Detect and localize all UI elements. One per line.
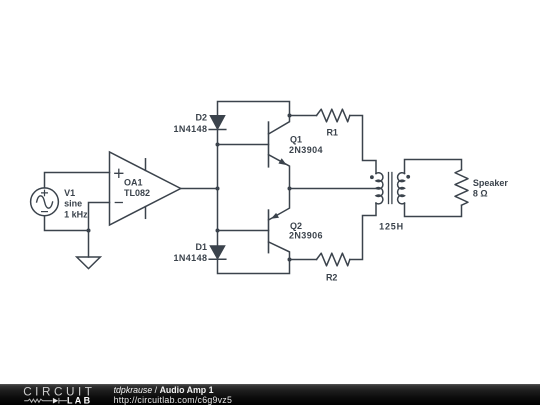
label V1 designator	[64, 188, 75, 198]
wire op-amp - input to ground node	[89, 203, 110, 231]
transformer secondary winding	[398, 173, 405, 204]
transformer primary phase dot	[370, 175, 374, 179]
diode D2	[209, 116, 226, 130]
label Q1 value 2N3904	[289, 145, 323, 155]
node at ground junction	[87, 229, 91, 233]
CircuitLab logo	[0, 384, 110, 405]
label Speaker value 8 ohm	[473, 188, 488, 198]
wire Q1 collector to R1	[290, 115, 317, 117]
svg-text:1 kHz: 1 kHz	[64, 209, 88, 219]
svg-text:OA1: OA1	[124, 177, 143, 187]
svg-text:Q1: Q1	[290, 134, 302, 144]
ground	[77, 231, 101, 269]
wire emitters junction to transformer center tap	[290, 188, 377, 190]
label OA1 designator	[124, 177, 143, 187]
label R2 designator	[326, 272, 338, 282]
transformer primary winding	[376, 173, 383, 204]
node Q2 collector	[288, 258, 292, 262]
transformer secondary phase dot	[406, 175, 410, 179]
transformer core	[389, 173, 392, 204]
wire Q1 base	[218, 144, 269, 146]
resistor R1	[317, 109, 350, 122]
footer url text	[114, 395, 233, 405]
transistor Q1	[269, 116, 290, 189]
wire R1 to transformer primary top	[350, 116, 376, 174]
label Speaker name	[473, 178, 509, 188]
svg-text:LAB: LAB	[67, 395, 92, 405]
op-amp OA1	[110, 152, 181, 225]
svg-text:V1: V1	[64, 188, 75, 198]
label D1 designator	[195, 242, 207, 252]
svg-text:R1: R1	[326, 127, 338, 137]
transistor Q2	[269, 189, 290, 260]
node Q1 collector	[288, 114, 292, 118]
wire Q2 collector to R2	[290, 259, 317, 261]
label Q2 value 2N3906	[289, 231, 323, 241]
wire bus middle segment	[217, 130, 219, 246]
node op-amp output on bus	[216, 187, 220, 191]
wire secondary top to speaker	[405, 160, 462, 174]
label Q1 designator	[290, 134, 302, 144]
wire R2 to transformer primary bottom	[350, 203, 376, 259]
svg-text:125H: 125H	[379, 222, 404, 232]
node D2 cathode / Q1 base	[216, 143, 220, 147]
svg-text:2N3906: 2N3906	[289, 231, 323, 241]
footer bar	[0, 384, 540, 405]
wire bus top corner to Q1 collector	[218, 102, 290, 116]
diode D1	[209, 246, 226, 259]
svg-text:1N4148: 1N4148	[173, 253, 207, 263]
wire op-amp output to diode bus	[181, 188, 218, 190]
svg-text:8 Ω: 8 Ω	[473, 188, 488, 198]
svg-text:D2: D2	[195, 113, 207, 123]
node D1 anode / Q2 base	[216, 229, 220, 233]
label D2 designator	[195, 113, 207, 123]
label V1 value sine 1 kHz	[64, 199, 88, 220]
svg-text:sine: sine	[64, 199, 82, 209]
footer title text	[114, 385, 214, 395]
label OA1 value TL082	[124, 188, 150, 198]
svg-text:TL082: TL082	[124, 188, 150, 198]
svg-text:D1: D1	[195, 242, 207, 252]
node emitters junction	[288, 187, 292, 191]
speaker load resistor	[455, 170, 468, 205]
label D2 value 1N4148	[173, 124, 207, 134]
label transformer value 125H	[379, 222, 404, 232]
svg-text:Speaker: Speaker	[473, 178, 509, 188]
resistor R2	[317, 253, 350, 266]
svg-text:Q2: Q2	[290, 221, 302, 231]
svg-text:2N3904: 2N3904	[289, 145, 323, 155]
wire V1 bottom to ground node	[45, 216, 89, 231]
label Q2 designator	[290, 221, 302, 231]
svg-text:1N4148: 1N4148	[173, 124, 207, 134]
wire Q2 base	[218, 230, 269, 232]
svg-text:R2: R2	[326, 272, 338, 282]
wire V1 top to op-amp + input	[45, 173, 110, 188]
voltage source V1	[31, 188, 59, 216]
wire secondary bottom to speaker	[405, 203, 462, 216]
wire bus bottom corner to Q2 collector	[218, 259, 290, 273]
label D1 value 1N4148	[173, 253, 207, 263]
label R1 designator	[326, 127, 338, 137]
